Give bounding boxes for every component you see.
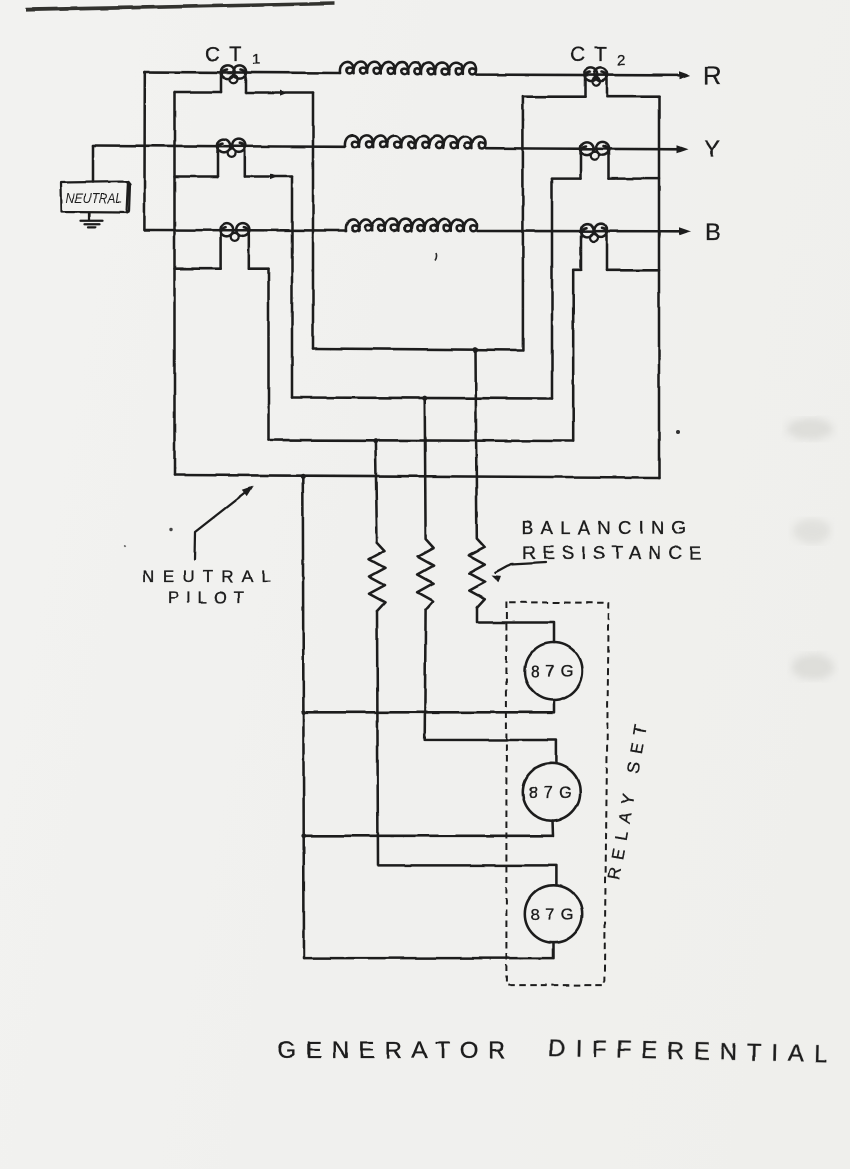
svg-text:B: B <box>705 219 723 246</box>
svg-text:Y: Y <box>704 136 722 163</box>
wire CT1-B secondary return vertical <box>267 269 270 440</box>
ground <box>81 213 103 228</box>
wire CT2-R secondary right lead <box>607 95 659 98</box>
svg-text:1: 1 <box>252 51 260 68</box>
current transformer CT2 phase Y <box>581 146 609 179</box>
wire relay1 return <box>303 700 554 712</box>
wire right resistor to relay1 <box>477 608 554 642</box>
relay 87G top <box>525 642 583 700</box>
balancing resistance pointer arrow <box>496 563 546 574</box>
stray ink marks <box>435 253 437 261</box>
wire relay3 return <box>305 943 554 959</box>
svg-text:R: R <box>703 62 723 90</box>
wire R phase pilot link <box>313 349 522 351</box>
wire CT1-R secondary right lead <box>246 91 314 94</box>
svg-text:RESISTANCE: RESISTANCE <box>522 542 701 563</box>
wire CT2-R secondary left lead <box>523 95 585 98</box>
node junction relay2 return <box>301 833 306 838</box>
wire CT1-Y secondary return vertical <box>291 177 294 398</box>
current transformer CT1 phase R <box>222 70 246 93</box>
wire CT1-Y secondary right lead <box>245 175 292 178</box>
wire middle resistor to relay2 <box>425 610 557 763</box>
wire CT1-B secondary left lead <box>175 267 221 270</box>
wire CT2-Y secondary riser <box>551 179 554 399</box>
resistor balancing left <box>369 441 385 612</box>
scan artifact bar top edge <box>26 2 335 12</box>
current transformer CT1 phase B <box>221 227 249 269</box>
generator winding coil phase B <box>346 219 477 231</box>
svg-text:87G: 87G <box>531 906 577 924</box>
neutral pilot pointer arrow <box>195 490 250 560</box>
svg-text:87G: 87G <box>529 784 575 802</box>
svg-text:BALANCING: BALANCING <box>521 517 686 538</box>
node junction neutral pilot <box>300 474 305 479</box>
wire star point connection R to B <box>143 72 146 230</box>
current transformer CT2 phase R <box>585 72 607 97</box>
wire phase B line <box>145 230 684 231</box>
wire CT2-B secondary right lead <box>607 269 659 272</box>
wire phase R line <box>145 72 684 75</box>
relay 87G bottom <box>525 885 582 942</box>
svg-text:87G: 87G <box>531 663 577 681</box>
wire relay2 return <box>304 821 554 836</box>
wire CT2-Y secondary right lead <box>609 177 660 180</box>
svg-text:RELAY SET: RELAY SET <box>605 719 652 882</box>
wire CT1 secondary common bus vertical <box>173 93 176 476</box>
wire neutral drop from Y line <box>92 146 95 183</box>
wire CT2-R secondary riser <box>522 97 525 350</box>
relay set enclosure dashed box <box>506 602 608 986</box>
current transformer CT2 phase B <box>581 228 607 270</box>
svg-text:PILOT: PILOT <box>168 588 244 607</box>
svg-text:NEUTRAL: NEUTRAL <box>143 567 271 586</box>
wire B phase pilot link <box>269 440 574 441</box>
wire CT2 secondary common vertical <box>658 97 661 478</box>
wire CT1-Y secondary left lead <box>175 175 218 178</box>
wire CT1-B secondary right lead <box>249 267 269 270</box>
resistor balancing right <box>469 350 485 608</box>
wire CT1-R secondary return vertical <box>312 93 315 349</box>
svg-text:CT: CT <box>205 43 249 66</box>
wire Y phase pilot link <box>292 398 552 399</box>
svg-text:CT: CT <box>570 43 614 66</box>
node junction R link tap <box>473 347 478 352</box>
generator winding coil phase Y <box>345 135 486 148</box>
relay 87G middle <box>523 763 580 820</box>
svg-text:NEUTRAL: NEUTRAL <box>66 191 122 206</box>
resistor balancing middle <box>418 399 434 611</box>
svg-text:GENERATOR: GENERATOR <box>278 1037 506 1064</box>
generator winding coil phase R <box>340 61 476 74</box>
wire left resistor to relay3 <box>377 611 556 885</box>
svg-text:2: 2 <box>617 52 625 69</box>
node junction Y link tap <box>422 396 427 401</box>
wire CT2-Y secondary left lead <box>552 177 581 180</box>
node junction relay1 return <box>301 710 306 715</box>
wire CT2-B secondary left lead <box>573 269 581 272</box>
svg-text:DIFFERENTIAL: DIFFERENTIAL <box>548 1035 828 1068</box>
wire neutral pilot bus <box>175 475 660 478</box>
wire CT2-B secondary riser <box>572 270 575 441</box>
wire CT1-R secondary left lead <box>175 91 222 94</box>
node junction B link tap <box>373 438 378 443</box>
wire relay return vertical <box>303 476 304 958</box>
current transformer CT1 phase Y <box>218 143 245 176</box>
neutral terminal box NEUTRAL <box>61 182 130 213</box>
wire phase Y line <box>93 146 682 150</box>
